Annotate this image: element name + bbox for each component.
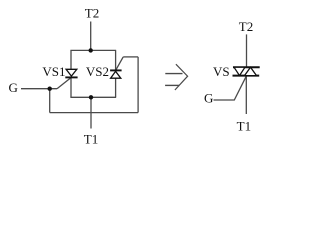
wire gate loop: right vertical <box>137 57 139 113</box>
wire G lead right <box>214 76 247 100</box>
thyristor VS1 (triangle + cathode bar) <box>65 69 77 77</box>
wire T1 lead right <box>245 76 247 114</box>
wire left vertical upper (VS1 anode) <box>70 50 72 69</box>
node junction dot top rail <box>89 48 93 52</box>
svg-text:VS: VS <box>213 64 230 79</box>
wire left vertical lower (VS1 cathode) <box>70 77 72 97</box>
triac VS symbol <box>233 67 260 75</box>
triac bottom bar <box>233 75 260 77</box>
triac left triangle <box>234 67 245 75</box>
wire top rail <box>70 49 116 51</box>
wire gate loop: bottom horizontal <box>50 112 138 114</box>
wire bottom rail <box>70 96 116 98</box>
wire gate loop: left vertical down from G node <box>49 89 51 113</box>
triac right triangle <box>245 67 257 75</box>
wire right vertical lower (VS2 anode) <box>115 78 117 97</box>
svg-text:G: G <box>9 80 18 95</box>
wire VS2 gate diagonal <box>116 57 124 71</box>
svg-text:T1: T1 <box>84 132 98 147</box>
svg-text:T2: T2 <box>85 6 99 21</box>
node junction dot G wire <box>48 87 52 91</box>
wire T1 lead left <box>90 97 92 128</box>
arrow double-line implication <box>165 64 188 90</box>
wire T2 lead right <box>246 34 248 67</box>
svg-text:VS1: VS1 <box>42 64 65 79</box>
thyristor VS2 (cathode bar + triangle) <box>110 70 122 78</box>
svg-text:VS2: VS2 <box>86 64 109 79</box>
node junction dot bottom rail <box>89 95 93 99</box>
wire right vertical upper (VS2 cathode) <box>115 50 117 70</box>
triac top bar <box>233 66 260 68</box>
wire T2 lead left <box>90 22 92 51</box>
wire G lead left <box>21 88 57 90</box>
wire VS1 gate diagonal <box>57 78 71 89</box>
wire gate loop: top horizontal <box>123 56 138 58</box>
svg-text:T2: T2 <box>239 19 253 34</box>
svg-text:T1: T1 <box>237 119 251 134</box>
svg-text:G: G <box>204 91 213 106</box>
